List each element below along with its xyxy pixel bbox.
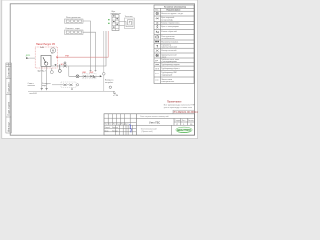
cabinet drop line with valve <box>103 31 106 91</box>
legend table <box>154 5 194 84</box>
wire X1 to node <box>83 21 92 72</box>
svg-text:подводящий: подводящий <box>161 73 172 76</box>
valve tee symbol on return <box>55 65 57 67</box>
svg-text:ЗД-ТВЦ-Т: ЗД-ТВЦ-Т <box>37 70 46 72</box>
svg-text:Дата: Дата <box>125 123 129 125</box>
valve V1 on return <box>63 62 66 67</box>
svg-text:2кВт: 2кВт <box>40 47 44 49</box>
drawing frame border <box>10 4 194 135</box>
svg-text:учесть прокладку в стяжке пола: учесть прокладку в стяжке пола <box>164 107 193 109</box>
title block outer <box>104 114 195 135</box>
warm floor loop label <box>125 16 133 18</box>
pump unit red dashed enclosure <box>35 47 57 68</box>
pipe end fittings <box>41 89 48 91</box>
supply label left <box>28 83 36 87</box>
drain assembly dashed box <box>52 82 79 89</box>
svg-text:Подп. и дата: Подп. и дата <box>9 101 11 115</box>
svg-text:Пров.: Пров. <box>104 130 109 132</box>
svg-text:Клапан обратный: Клапан обратный <box>161 30 176 33</box>
level line with mark <box>28 91 115 95</box>
inlet stub with green tag <box>26 55 35 59</box>
gauge below pump enclosure <box>50 68 53 74</box>
reference flag to TZM <box>113 91 119 97</box>
svg-text:ДУ25: ДУ25 <box>26 55 30 57</box>
legend row texts <box>161 13 183 83</box>
outlet label <box>105 80 114 84</box>
svg-text:Взам.инв: Взам.инв <box>9 67 11 78</box>
green indicators on manifold <box>108 19 109 24</box>
svg-text:с расходомерами: с расходомерами <box>161 61 176 63</box>
svg-text:электрическая: электрическая <box>161 81 174 83</box>
paper sheet <box>0 0 200 141</box>
svg-text:отм.0.00: отм.0.00 <box>29 93 36 95</box>
title block header texts <box>104 122 128 132</box>
svg-text:КШ1: КШ1 <box>82 72 86 74</box>
svg-text:Трубопровод подачи: Трубопровод подачи <box>161 64 179 66</box>
valve on mixing line <box>76 75 79 78</box>
svg-text:Лист: Лист <box>182 120 186 122</box>
svg-text:Иванов: Иванов <box>112 127 118 129</box>
svg-text:КШ2: КШ2 <box>90 72 94 74</box>
filter dashed box <box>82 72 87 79</box>
svg-text:Стадия: Стадия <box>175 120 181 122</box>
svg-text:Кран с электроприв.: Кран с электроприв. <box>161 26 179 28</box>
sensor circle below outlet <box>109 86 111 88</box>
notes block <box>164 101 196 109</box>
doc number (red, above title block) <box>173 110 198 114</box>
return label <box>42 83 51 87</box>
svg-text:Усл.: Усл. <box>155 10 159 12</box>
svg-text:канализ.: канализ. <box>28 85 36 87</box>
label NZ (red) <box>61 64 64 66</box>
title block right texts <box>140 115 194 133</box>
svg-text:Трубопровод обратн.: Трубопровод обратн. <box>161 68 180 70</box>
svg-text:запорный Ду: запорный Ду <box>161 18 172 21</box>
svg-text:(Проектный): (Проектный) <box>142 130 153 133</box>
svg-text:потребит.: потребит. <box>105 82 114 84</box>
svg-text:Манометр показыв.: Манометр показыв. <box>161 41 179 43</box>
svg-text:теплоносителя: теплоносителя <box>161 38 174 40</box>
svg-text:Примечание: Примечание <box>167 101 182 104</box>
svg-text:Условные обозначения: Условные обозначения <box>164 7 186 9</box>
pump unit label (red) <box>36 43 55 49</box>
drain valve with sensor bulb <box>58 64 61 72</box>
svg-text:к ТЗМ: к ТЗМ <box>113 95 119 97</box>
terminal block X2 (room thermostat) <box>65 28 84 34</box>
pipe label ZD-TVC <box>37 70 46 72</box>
svg-text:Петров: Петров <box>112 130 118 132</box>
svg-text:Подп.дата: Подп.дата <box>9 82 11 94</box>
svg-text:Насос Ресурс УО: Насос Ресурс УО <box>36 43 55 46</box>
pump P1 body <box>41 53 53 66</box>
legend header <box>155 7 186 12</box>
svg-text:Наименование: Наименование <box>167 10 181 12</box>
blue signature <box>130 124 132 132</box>
legend symbols <box>155 12 159 80</box>
title block right part grid <box>136 118 194 135</box>
svg-text:Узел нагрева жилых помещений: Узел нагрева жилых помещений <box>140 115 168 118</box>
svg-text:Листов: Листов <box>188 120 194 122</box>
outlet arrow <box>100 75 102 77</box>
left margin stamp strip <box>6 63 11 133</box>
svg-text:биметаллический: биметаллический <box>161 46 177 49</box>
node drop from return to mixing line <box>68 66 70 76</box>
title block left change-table <box>104 114 136 135</box>
svg-text:Кол: Кол <box>109 123 112 125</box>
svg-text:ВЕНТПРО: ВЕНТПРО <box>177 128 191 132</box>
svg-text:Разраб.: Разраб. <box>104 127 111 129</box>
pump drop pipes <box>42 66 47 88</box>
svg-text:Клапан термостатич.: Клапан термостатич. <box>161 23 180 25</box>
red supply wire PM <box>56 31 108 58</box>
svg-text:насос: насос <box>161 56 166 58</box>
svg-text:Узел ГВС: Узел ГВС <box>149 120 160 124</box>
mixing line <box>69 75 100 77</box>
valve group dashed box <box>89 72 96 79</box>
svg-text:Инв.подл: Инв.подл <box>9 121 11 132</box>
company logo green <box>176 127 192 133</box>
wire X2 to node <box>83 32 97 71</box>
svg-text:Насосная группа с эл.дв.: Насосная группа с эл.дв. <box>161 13 183 15</box>
motor M1 <box>50 48 55 53</box>
terminal block X1 (pressure relay) <box>65 17 84 23</box>
svg-text:Фильтр сетчатый: Фильтр сетчатый <box>161 49 176 52</box>
left strip rotated labels <box>9 67 11 132</box>
manifold collector block <box>111 11 121 31</box>
warm floor meander coil <box>119 18 135 29</box>
return pipe wire <box>51 31 106 66</box>
